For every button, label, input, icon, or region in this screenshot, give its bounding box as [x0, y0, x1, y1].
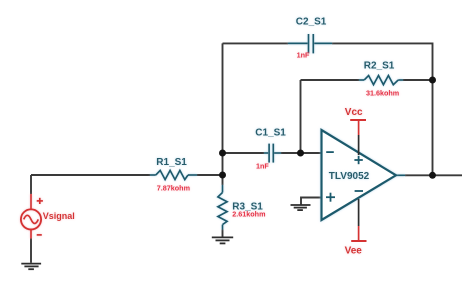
svg-text:Vsignal: Vsignal — [43, 211, 75, 221]
svg-text:C2_S1: C2_S1 — [296, 17, 327, 28]
svg-text:R1_S1: R1_S1 — [156, 157, 187, 168]
svg-text:Vee: Vee — [345, 246, 363, 257]
svg-text:7.87kohm: 7.87kohm — [157, 184, 190, 193]
svg-text:C1_S1: C1_S1 — [255, 127, 286, 138]
svg-text:R2_S1: R2_S1 — [364, 61, 395, 72]
svg-text:TLV9052: TLV9052 — [329, 171, 370, 182]
svg-text:Vcc: Vcc — [345, 107, 363, 118]
svg-text:1nF: 1nF — [297, 50, 310, 59]
svg-text:1nF: 1nF — [256, 162, 269, 171]
svg-text:2.61kohm: 2.61kohm — [232, 209, 265, 218]
svg-text:31.6kohm: 31.6kohm — [366, 89, 399, 98]
